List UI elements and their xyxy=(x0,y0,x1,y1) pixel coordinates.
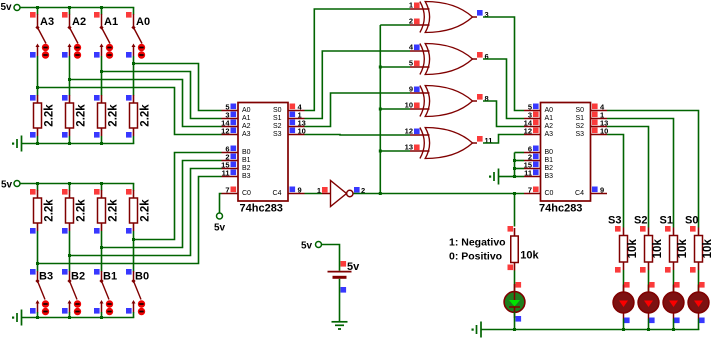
wire U1 S2 to XOR input xyxy=(305,93,411,127)
svg-text:S2: S2 xyxy=(273,123,282,130)
pin 9 xyxy=(591,186,608,195)
svg-text:S3: S3 xyxy=(273,131,282,138)
wire U2 B common to ground xyxy=(499,176,515,178)
state square LED S3 anode xyxy=(624,282,630,288)
junction A1 bus tee xyxy=(100,70,103,73)
state square RA1 top xyxy=(94,95,100,101)
svg-text:B2: B2 xyxy=(71,271,85,283)
switch B2 pole pin xyxy=(69,271,71,281)
svg-text:B2: B2 xyxy=(545,165,554,172)
XOR U4:A input pin 2 xyxy=(409,17,430,26)
svg-text:A1: A1 xyxy=(545,115,554,122)
wire net B0 to U1 pin xyxy=(134,153,222,240)
junction carry-not to sign indicator xyxy=(513,192,516,195)
switch B2 contact 1 xyxy=(74,300,81,307)
svg-text:2.2k: 2.2k xyxy=(44,104,56,127)
power terminal 5v U1 C0 xyxy=(214,213,226,234)
resistor 2.2k pin stubs xyxy=(101,95,103,103)
junction A2 bus tee xyxy=(68,78,71,81)
wire A3 switch to resistor xyxy=(37,56,39,96)
wire U1 S3 to XOR4 input xyxy=(305,134,411,137)
state square battery - xyxy=(341,287,347,293)
state square LED S1 anode xyxy=(674,282,680,288)
resistor 2.2k pin stubs xyxy=(37,95,39,103)
IC U2 body 74hc283 xyxy=(541,103,591,202)
junction on B 5v rail xyxy=(100,182,103,185)
wire into RS0 xyxy=(698,226,700,228)
switch A0 pole pin xyxy=(133,14,135,28)
pin 4 xyxy=(288,103,305,112)
switch B0 contact 2 xyxy=(138,308,145,315)
switch B3 state square (bottom) xyxy=(30,308,36,314)
switch B2 state square (top) xyxy=(62,269,68,275)
resistor body 10k xyxy=(645,236,653,263)
svg-text:10k: 10k xyxy=(627,239,639,259)
svg-text:S0: S0 xyxy=(685,215,698,227)
switch B3 pole pin xyxy=(37,271,39,281)
svg-text:2.2k: 2.2k xyxy=(140,199,152,222)
IC U1 internal pin names xyxy=(242,107,282,197)
wire U1 S0 to XOR input xyxy=(305,9,411,111)
wire RS3 to LED xyxy=(623,270,625,292)
junction LED on ground rail xyxy=(672,328,675,331)
wire B rail down-stub xyxy=(101,184,103,191)
svg-text:5v: 5v xyxy=(1,2,13,13)
state square LED S2 anode xyxy=(649,282,655,288)
junction on B 5v rail xyxy=(36,182,39,185)
resistor 2.2k pin stubs xyxy=(101,190,103,198)
state square RA3 bottom xyxy=(30,132,36,138)
state square RA0 top xyxy=(126,95,132,101)
state square RA0 bottom xyxy=(126,132,132,138)
state square RS1 top xyxy=(665,226,671,232)
svg-text:C4: C4 xyxy=(575,190,584,197)
wire net A1 to U1 pin xyxy=(102,72,222,119)
pin 2 xyxy=(222,153,239,162)
svg-text:7: 7 xyxy=(528,186,532,195)
svg-text:A3: A3 xyxy=(242,131,251,138)
svg-text:A0: A0 xyxy=(136,16,150,28)
XOR U4:A output pin 3 xyxy=(473,10,489,19)
wire RB1 down to switch xyxy=(101,231,103,272)
svg-text:9: 9 xyxy=(600,186,604,195)
switch B3 contact 2 xyxy=(42,308,49,315)
wire B1 switch to ground rail xyxy=(101,312,103,318)
junction on B 5v rail xyxy=(68,182,71,185)
svg-text:C0: C0 xyxy=(242,190,251,197)
state square RB2 bottom xyxy=(62,228,68,234)
svg-text:A3: A3 xyxy=(545,131,554,138)
XOR U4:C input pin 10 xyxy=(405,101,430,110)
ground output rail xyxy=(472,322,482,338)
wire carry-not down to sign resistor xyxy=(514,194,516,227)
switch A1 pole pin xyxy=(101,14,103,28)
XOR U4:D input pin 13 xyxy=(405,143,430,152)
svg-text:A1: A1 xyxy=(104,16,118,28)
power terminal 5v A-switch rail xyxy=(1,2,21,13)
wire B2 switch to ground rail xyxy=(69,312,71,318)
svg-text:74hc283: 74hc283 xyxy=(539,203,582,215)
wire B rail down-stub xyxy=(69,184,71,191)
wire XOR1 output to U2 A0 xyxy=(483,17,524,111)
svg-text:12: 12 xyxy=(405,127,413,136)
wire U2 S0 to output column xyxy=(607,111,699,226)
switch B0 contact 1 xyxy=(138,300,145,307)
junction sign LED on ground rail xyxy=(513,328,516,331)
wire RS1 to LED xyxy=(673,270,675,292)
svg-text:B2: B2 xyxy=(242,165,251,172)
wire XOR2 output to U2 A1 xyxy=(483,59,524,119)
inverter U3 input pin 1 xyxy=(317,186,331,195)
switch B1 pole pin xyxy=(101,271,103,281)
switch B2 throw pin with arrow xyxy=(69,302,71,313)
switch B0 lever xyxy=(134,281,142,300)
wire carry-not to XOR3 input 2 xyxy=(380,108,410,110)
resistor body 2.2k xyxy=(34,103,42,128)
switch A2 lever xyxy=(70,28,79,44)
switch A3 lever xyxy=(38,28,47,44)
wire B rail down-stub xyxy=(133,184,135,191)
svg-text:5v: 5v xyxy=(214,223,226,234)
switch B3 lever xyxy=(38,281,46,300)
pin 6 xyxy=(222,145,239,154)
wire 5v terminal to battery xyxy=(322,245,340,271)
svg-text:2.2k: 2.2k xyxy=(108,199,120,222)
XOR U4:B output pin 6 xyxy=(473,52,489,61)
svg-text:2.2k: 2.2k xyxy=(76,199,88,222)
pin 3 xyxy=(222,111,239,120)
switch A3 pole pin xyxy=(37,14,39,28)
svg-text:12: 12 xyxy=(524,127,532,136)
IC U1 body 74hc283 xyxy=(238,103,288,202)
pin 14 xyxy=(221,119,238,128)
wire U2 S1 to output column xyxy=(607,119,674,226)
svg-text:2.2k: 2.2k xyxy=(76,104,88,127)
wire RB3 down to switch xyxy=(37,231,39,272)
battery BAT1 plates xyxy=(328,272,352,278)
resistor body 10k xyxy=(620,236,628,263)
junction B2 bus tee xyxy=(68,254,71,257)
junction on A 5v rail xyxy=(68,6,71,9)
svg-text:1: Negativo: 1: Negativo xyxy=(449,237,506,249)
svg-text:A0: A0 xyxy=(242,107,251,114)
state square RA2 bottom xyxy=(62,132,68,138)
junction B3 bus tee xyxy=(36,262,39,265)
resistor body 2.2k xyxy=(98,198,106,223)
svg-text:A2: A2 xyxy=(242,123,251,130)
wire RA2 to ground rail xyxy=(69,136,71,144)
state square RA3 top xyxy=(30,95,36,101)
pin 10 xyxy=(591,127,609,136)
wire U1 S1 to XOR input xyxy=(305,51,411,119)
state square RS1 bottom xyxy=(665,267,671,273)
resistor 10k pin stubs xyxy=(623,228,625,236)
resistor 2.2k pin stubs xyxy=(37,190,39,198)
wire B ground rail xyxy=(22,317,135,319)
LED D-sign (green) xyxy=(504,284,525,318)
wire B0 switch to ground rail xyxy=(133,312,135,318)
resistor 10k pin stubs xyxy=(698,228,700,236)
pin 11 xyxy=(222,169,239,178)
pin 6 xyxy=(524,145,541,154)
switch A1 state square (bottom) xyxy=(94,52,100,58)
XOR U4:D output pin 11 xyxy=(473,136,493,145)
resistor body 2.2k xyxy=(66,103,74,128)
pin 12 xyxy=(524,127,541,136)
wire U2 B inputs common xyxy=(514,153,516,177)
junction carry-not tee xyxy=(379,108,382,111)
inverter U3 output bubble xyxy=(347,190,353,196)
pin 4 xyxy=(591,103,608,112)
svg-text:7: 7 xyxy=(225,186,229,195)
state square LED S3 cathode xyxy=(624,318,630,324)
switch A0 state square (bottom) xyxy=(126,52,132,58)
svg-text:2.2k: 2.2k xyxy=(108,104,120,127)
wire net B1 to U1 pin xyxy=(102,161,222,248)
switch A3 state square (bottom) xyxy=(30,52,36,58)
junction on A ground rail xyxy=(68,142,71,145)
svg-text:A0: A0 xyxy=(545,107,554,114)
svg-text:C4: C4 xyxy=(273,190,282,197)
switch B3 contact 1 xyxy=(42,300,49,307)
junction carry-not tee xyxy=(379,66,382,69)
switch A2 throw pin with arrow xyxy=(69,45,71,56)
wire into RS1 xyxy=(673,226,675,228)
junction B1 bus tee xyxy=(100,246,103,249)
XOR U4:A input pin 1 xyxy=(409,1,430,10)
state square R-sign top xyxy=(508,226,514,232)
svg-text:S2: S2 xyxy=(634,215,647,227)
resistor body 2.2k xyxy=(66,198,74,223)
pin 13 xyxy=(288,119,306,128)
switch B3 state square (top) xyxy=(30,269,36,275)
junction on A ground rail xyxy=(36,142,39,145)
wire 5v rail to A switches xyxy=(20,7,134,9)
wire into RS3 xyxy=(623,226,625,228)
power terminal 5v B-resistor rail xyxy=(1,180,20,191)
XOR U4:B input pin 5 xyxy=(409,59,430,68)
svg-text:S1: S1 xyxy=(273,115,282,122)
switch A2 contact 1 xyxy=(74,44,81,51)
resistor body 2.2k xyxy=(34,198,42,223)
pin 7 xyxy=(524,186,541,195)
junction U2 B common xyxy=(513,167,516,170)
pin 5 xyxy=(524,103,541,112)
LED D-S0 xyxy=(688,285,709,319)
state square LED S0 cathode xyxy=(699,318,705,324)
wire U2 B2 to common xyxy=(515,168,525,170)
svg-text:B3: B3 xyxy=(242,173,251,180)
switch B2 contact 2 xyxy=(74,308,81,315)
wire 5v rail to B resistors xyxy=(20,183,134,185)
state square RA2 top xyxy=(62,95,68,101)
svg-text:S3: S3 xyxy=(575,131,584,138)
switch A1 contact 1 xyxy=(106,44,113,51)
XOR U4:C output pin 8 xyxy=(473,94,489,103)
junction on A 5v rail xyxy=(36,6,39,9)
ground battery xyxy=(332,322,348,330)
resistor body 10k xyxy=(695,236,703,263)
switch B0 state square (top) xyxy=(126,269,132,275)
resistor body 2.2k xyxy=(130,103,138,128)
wire net B3 to U1 pin xyxy=(38,177,222,264)
state square R-sign bottom xyxy=(508,265,514,271)
svg-text:1: 1 xyxy=(317,186,321,195)
state square RB1 top xyxy=(94,189,100,195)
pin 15 xyxy=(221,161,238,170)
svg-text:10k: 10k xyxy=(520,250,539,262)
resistor 2.2k pin stubs xyxy=(69,95,71,103)
junction on B ground rail xyxy=(68,316,71,319)
wire RS2 to LED xyxy=(648,270,650,292)
switch B0 throw pin with arrow xyxy=(133,302,135,313)
junction A0 bus tee xyxy=(132,62,135,65)
resistor 2.2k pin stubs xyxy=(133,190,135,198)
switch A2 state square (top) xyxy=(62,12,68,18)
junction on A 5v rail xyxy=(100,6,103,9)
resistor body 10k xyxy=(511,236,519,263)
XOR U4:B input pin 4 xyxy=(409,43,430,52)
state square LED S2 cathode xyxy=(649,318,655,324)
svg-text:10k: 10k xyxy=(652,239,664,259)
switch A2 state square (bottom) xyxy=(62,52,68,58)
state square RS2 bottom xyxy=(640,267,646,273)
wire LED-sign to ground rail xyxy=(514,312,516,330)
switch B1 throw pin with arrow xyxy=(101,302,103,313)
switch A0 contact 1 xyxy=(138,44,145,51)
state square RS0 top xyxy=(690,226,696,232)
svg-text:9: 9 xyxy=(409,85,413,94)
junction carry-not to XOR column xyxy=(379,192,382,195)
svg-text:S1: S1 xyxy=(575,115,584,122)
resistor body 2.2k xyxy=(98,103,106,128)
switch B1 contact 2 xyxy=(106,308,113,315)
pin 7 xyxy=(222,186,239,195)
svg-text:C0: C0 xyxy=(545,190,554,197)
IC U2 internal pin names xyxy=(545,107,585,197)
pin 1 xyxy=(288,111,305,120)
state square LED-sign anode xyxy=(516,282,522,288)
wire LED S2 to ground rail xyxy=(648,319,650,331)
junction on B ground rail xyxy=(36,316,39,319)
switch A3 state square (top) xyxy=(30,12,36,18)
wire battery to ground xyxy=(339,279,341,321)
svg-text:S1: S1 xyxy=(660,215,673,227)
switch A0 state square (top) xyxy=(126,12,132,18)
wire output ground rail xyxy=(481,329,699,331)
switch B0 pole pin xyxy=(133,271,135,281)
wire A1 switch to resistor xyxy=(101,56,103,96)
svg-text:12: 12 xyxy=(221,127,229,136)
power terminal 5v battery xyxy=(301,241,322,252)
wire carry-not to XOR4 input 2 xyxy=(380,150,410,152)
svg-text:2.2k: 2.2k xyxy=(140,104,152,127)
state square LED-sign cathode xyxy=(516,316,522,322)
state square RS3 bottom xyxy=(615,267,621,273)
wire LED S3 to ground rail xyxy=(623,319,625,331)
svg-text:9: 9 xyxy=(298,186,302,195)
state square RS0 bottom xyxy=(690,267,696,273)
switch B1 state square (bottom) xyxy=(94,308,100,314)
state square RB2 top xyxy=(62,189,68,195)
wire net A3 to U1 pin xyxy=(38,88,222,135)
switch A0 throw pin with arrow xyxy=(133,45,135,56)
LED D-S1 xyxy=(663,285,684,319)
svg-text:S3: S3 xyxy=(608,215,621,227)
wire carry-not to XOR1 input 2 xyxy=(380,24,410,26)
XOR U4:D input pin 12 xyxy=(405,127,430,136)
pin 9 xyxy=(288,186,305,195)
switch A3 contact 1 xyxy=(42,44,49,51)
svg-text:B1: B1 xyxy=(242,157,251,164)
svg-text:11: 11 xyxy=(524,169,532,178)
svg-text:B0: B0 xyxy=(135,271,149,283)
switch A1 throw pin with arrow xyxy=(101,45,103,56)
wire B3 switch to ground rail xyxy=(37,312,39,318)
wire U2 S3 to output column xyxy=(607,135,624,226)
wire A rail down-stubs xyxy=(37,8,39,15)
svg-text:1: 1 xyxy=(409,1,413,10)
junction U2 B common to ground xyxy=(513,175,516,178)
wire A2 switch to resistor xyxy=(69,56,71,96)
label sign legend xyxy=(449,237,506,263)
wire net A0 to U1 pin xyxy=(134,64,222,111)
wire into RS2 xyxy=(648,226,650,228)
junction LED on ground rail xyxy=(647,328,650,331)
switch B1 state square (top) xyxy=(94,269,100,275)
state square battery + xyxy=(341,261,347,267)
wire net B2 to U1 pin xyxy=(70,169,222,256)
junction U2 B common xyxy=(513,159,516,162)
resistor 10k pin stubs xyxy=(648,228,650,236)
resistor body 2.2k xyxy=(130,198,138,223)
svg-text:10k: 10k xyxy=(702,239,713,259)
state square RB0 top xyxy=(126,189,132,195)
state square LED S1 cathode xyxy=(674,318,680,324)
resistor 10k pin stubs xyxy=(673,228,675,236)
wire B rail down-stub xyxy=(37,184,39,191)
pin 5 xyxy=(222,103,239,112)
svg-text:74hc283: 74hc283 xyxy=(240,203,283,215)
inverter U3 output pin 2 xyxy=(354,186,365,195)
state square RS3 top xyxy=(615,226,621,232)
svg-text:B0: B0 xyxy=(242,149,251,156)
state square RS2 top xyxy=(640,226,646,232)
switch A0 lever xyxy=(134,28,143,44)
junction on B ground rail xyxy=(100,316,103,319)
svg-text:A2: A2 xyxy=(545,123,554,130)
svg-text:10k: 10k xyxy=(677,239,689,259)
wire R-sign to LED xyxy=(514,271,516,293)
svg-text:B0: B0 xyxy=(545,149,554,156)
XOR gate U4:A body xyxy=(420,2,473,33)
wire RA3 to ground rail xyxy=(37,136,39,144)
resistor 10k pin stubs xyxy=(514,228,516,236)
svg-text:5v: 5v xyxy=(1,180,13,191)
LED D-S3 xyxy=(613,285,634,319)
svg-text:S2: S2 xyxy=(575,123,584,130)
switch B2 state square (bottom) xyxy=(62,308,68,314)
wire 5v terminal to U1 C0 xyxy=(220,194,222,214)
switch A3 contact 2 xyxy=(42,51,49,58)
wire carry-not vertical to XOR inputs xyxy=(379,25,381,194)
wire RB2 down to switch xyxy=(69,231,71,272)
junction carry-not tee xyxy=(379,150,382,153)
svg-text:2: 2 xyxy=(409,17,413,26)
svg-text:11: 11 xyxy=(222,169,230,178)
wire A ground rail xyxy=(22,143,135,145)
switch A3 throw pin with arrow xyxy=(37,45,39,56)
